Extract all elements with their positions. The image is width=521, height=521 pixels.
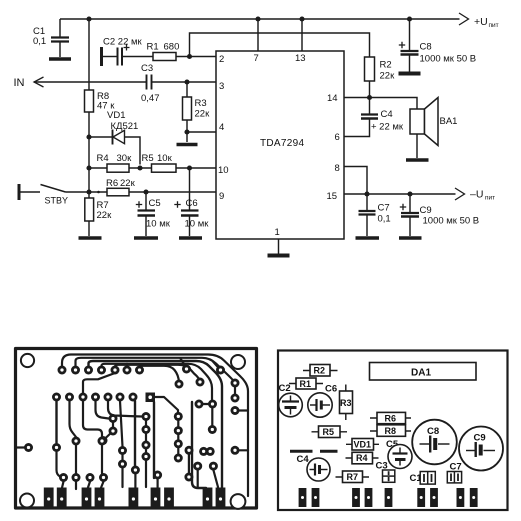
- resistor R7: [88, 192, 90, 198]
- svg-text:0,1: 0,1: [378, 214, 391, 225]
- trace B3 elbow: [83, 401, 102, 437]
- speaker BA1: [410, 109, 425, 134]
- node C9 junction: [407, 191, 412, 196]
- svg-text:10к: 10к: [157, 153, 173, 164]
- trace lower 2: [75, 445, 77, 474]
- svg-text:6: 6: [335, 132, 340, 143]
- resistor R1: [153, 53, 176, 61]
- trace bus 6: [140, 366, 180, 384]
- node pin8/pin15 junction: [364, 191, 369, 196]
- svg-text:22к: 22к: [195, 109, 211, 120]
- resistor R5: [152, 164, 177, 172]
- wire pin 14 to speaker: [344, 98, 417, 110]
- svg-text:R8: R8: [385, 426, 397, 436]
- svg-text:15: 15: [327, 191, 338, 202]
- svg-text:C5: C5: [149, 198, 161, 209]
- node pin14/R2/C4 junction: [367, 95, 372, 100]
- svg-text:R2: R2: [380, 60, 392, 71]
- wire pin 9 row: [66, 191, 108, 193]
- resistor R3: [186, 82, 188, 97]
- trace stub right 1: [235, 409, 248, 411]
- wire left rail: [88, 19, 90, 90]
- svg-text:R3: R3: [195, 98, 207, 109]
- svg-text:VD1: VD1: [354, 440, 372, 450]
- svg-text:C6: C6: [325, 384, 337, 395]
- ground pin 1: [268, 254, 290, 258]
- wire pin 13: [301, 19, 303, 51]
- trace lower 3: [101, 445, 103, 474]
- svg-text:BA1: BA1: [440, 116, 458, 127]
- svg-text:R6: R6: [385, 414, 397, 424]
- switch STBY: [21, 191, 41, 193]
- svg-text:2: 2: [219, 54, 224, 65]
- trace mid chain 1: [145, 417, 147, 457]
- terminal C2 input bar: [100, 47, 103, 66]
- trace mid chain 2: [177, 416, 179, 458]
- resistor R2: [365, 57, 375, 81]
- trace mid 3: [103, 419, 113, 441]
- svg-text:пит: пит: [489, 22, 499, 29]
- mounting hole top-left: [21, 354, 34, 367]
- wire feedback to R2: [190, 33, 370, 57]
- node +U junction C1: [86, 16, 91, 21]
- capacitor C7: [366, 194, 368, 211]
- placement board outline: [278, 351, 508, 511]
- svg-text:R6: R6: [106, 178, 118, 189]
- svg-text:VD1: VD1: [107, 110, 125, 121]
- svg-text:C6: C6: [186, 198, 198, 209]
- capacitor C4 placement circle: [307, 458, 330, 481]
- resistor R4 placement: [346, 457, 379, 459]
- bottom terminal pads placement: [299, 488, 307, 507]
- ground C7: [356, 236, 380, 240]
- svg-text:+ 22 мк: + 22 мк: [371, 122, 404, 133]
- square pad pin1 marker: [146, 393, 156, 403]
- resistor R6 placement: [370, 417, 411, 419]
- svg-text:10 мк: 10 мк: [185, 219, 210, 230]
- svg-text:C9: C9: [420, 205, 432, 216]
- node R5/C6 junction: [187, 165, 192, 170]
- svg-text:10: 10: [218, 165, 229, 176]
- PCB copper-side layout: [16, 349, 257, 509]
- capacitor C4 bars: [290, 450, 313, 453]
- trace left stub: [16, 446, 29, 448]
- ground C6: [179, 236, 202, 240]
- -U arrow: [455, 188, 465, 200]
- node pin3/R3 junction: [184, 79, 189, 84]
- svg-text:+U: +U: [474, 16, 488, 28]
- trace bus 4: [102, 364, 213, 400]
- IC DA1 outline: [370, 363, 477, 381]
- wire pin 1 to ground: [278, 239, 280, 254]
- svg-text:1: 1: [275, 227, 280, 238]
- svg-text:C3: C3: [141, 63, 153, 74]
- trace stub right 2: [235, 449, 248, 451]
- resistor R3 placement: [345, 385, 347, 421]
- wire pin 4: [187, 131, 216, 133]
- trace long vertical 2: [153, 402, 155, 478]
- node pin7 junction: [255, 16, 260, 21]
- terminal STBY bar: [18, 184, 21, 200]
- svg-text:10 мк: 10 мк: [146, 219, 171, 230]
- svg-text:C4: C4: [297, 454, 310, 465]
- trace long vertical 3: [192, 402, 206, 488]
- diode VD1 KD521: [86, 134, 91, 139]
- svg-text:22к: 22к: [97, 210, 113, 221]
- node C5 junction: [143, 189, 148, 194]
- ground R7: [79, 236, 102, 240]
- svg-text:C4: C4: [381, 109, 393, 120]
- trace B6 vertical: [120, 401, 123, 447]
- capacitor C2: [103, 56, 117, 58]
- +U arrow: [459, 13, 469, 25]
- resistor R6: [107, 188, 129, 196]
- trace A8 diag: [181, 359, 187, 369]
- trace right column link: [234, 383, 236, 398]
- svg-text:0,47: 0,47: [141, 93, 160, 104]
- svg-text:–U: –U: [470, 189, 483, 201]
- IN arrow: [34, 77, 44, 87]
- resistor R7 placement: [336, 476, 370, 478]
- capacitor C4 bootstrap: [369, 98, 371, 115]
- ground C9: [399, 236, 422, 240]
- trace bus 1 outer: [62, 355, 248, 497]
- wire pin 15 to -U: [344, 193, 456, 195]
- node R1 output junction: [187, 54, 192, 59]
- svg-text:КД521: КД521: [111, 121, 139, 132]
- mounting hole bottom-left: [20, 494, 34, 508]
- svg-text:C2 22 мк: C2 22 мк: [103, 37, 143, 48]
- op-amp U1 TDA7294: [216, 51, 344, 239]
- mounting hole bottom-right: [231, 494, 246, 509]
- board outline: [16, 349, 257, 509]
- resistor R1 placement: [289, 383, 323, 385]
- svg-text:30к: 30к: [117, 153, 133, 164]
- svg-text:22к: 22к: [120, 178, 136, 189]
- trace B4 elbow: [96, 401, 109, 419]
- node R3 bottom junction: [184, 129, 189, 134]
- svg-text:9: 9: [219, 191, 224, 202]
- svg-text:3: 3: [219, 81, 224, 92]
- svg-text:R1: R1: [147, 42, 159, 53]
- trace pads 199-212: [199, 403, 213, 405]
- svg-text:R7: R7: [347, 472, 359, 482]
- svg-text:C8: C8: [427, 426, 439, 437]
- bottom terminal pads copper: [44, 488, 54, 508]
- ground BA1: [406, 158, 429, 162]
- ground R3/pin4: [177, 143, 198, 147]
- resistor R5 placement: [312, 431, 348, 433]
- node pin13 junction: [299, 16, 304, 21]
- svg-text:C7: C7: [378, 203, 390, 214]
- trace bus 5: [115, 365, 200, 382]
- resistor R2 placement: [303, 370, 338, 372]
- svg-text:R5: R5: [323, 427, 335, 437]
- svg-text:1000 мк 50 В: 1000 мк 50 В: [423, 216, 480, 227]
- capacitor C6: [189, 168, 191, 210]
- svg-text:C2: C2: [279, 383, 291, 394]
- svg-text:14: 14: [327, 93, 338, 104]
- svg-text:R4: R4: [356, 453, 368, 463]
- capacitor C8: [409, 19, 411, 51]
- resistor R8 placement: [370, 430, 411, 432]
- ground C5: [134, 236, 158, 240]
- svg-text:22к: 22к: [380, 71, 396, 82]
- svg-text:7: 7: [254, 53, 259, 64]
- wire top +U rail: [60, 18, 460, 20]
- svg-text:R1: R1: [300, 379, 312, 389]
- wire pin 7: [257, 19, 259, 51]
- svg-text:R5: R5: [142, 153, 154, 164]
- node STBY junction: [86, 189, 91, 194]
- svg-text:0,1: 0,1: [33, 36, 46, 47]
- svg-text:8: 8: [335, 163, 340, 174]
- capacitor C8 placement: [412, 420, 457, 465]
- trace long vertical 1: [134, 401, 136, 466]
- node R4/R5 junction: [137, 165, 142, 170]
- ground C8: [399, 72, 421, 76]
- svg-text:680: 680: [164, 42, 180, 53]
- capacitor C9 placement: [459, 427, 503, 471]
- svg-text:C8: C8: [420, 42, 432, 53]
- trace B1 vertical: [55, 401, 57, 443]
- capacitor C5: [145, 192, 147, 210]
- svg-text:13: 13: [295, 53, 306, 64]
- ground C1: [49, 57, 71, 61]
- mounting hole top-right: [231, 355, 245, 369]
- trace A6 stub: [126, 364, 128, 370]
- resistor R4: [86, 165, 91, 170]
- trace bus 3: [89, 361, 223, 488]
- diode VD1 placement: [346, 443, 379, 445]
- trace lower 1: [57, 452, 64, 478]
- svg-text:C9: C9: [474, 433, 486, 444]
- capacitor C1: [59, 19, 61, 37]
- trace rowB riser: [83, 373, 115, 393]
- trace A9 diag: [213, 361, 221, 370]
- wire IN line to pin 3: [34, 81, 147, 83]
- svg-text:R3: R3: [340, 398, 352, 408]
- pads copper layout: [58, 366, 67, 375]
- svg-text:4: 4: [219, 122, 224, 133]
- wire pin 8: [344, 167, 367, 195]
- svg-text:R4: R4: [97, 153, 109, 164]
- capacitor C9: [409, 194, 411, 213]
- trace B2 elbow: [70, 401, 77, 437]
- svg-text:STBY: STBY: [45, 196, 69, 206]
- trace square pad link: [155, 397, 178, 416]
- trace B5 elbow: [108, 401, 142, 417]
- resistor R8: [85, 90, 94, 112]
- svg-text:DA1: DA1: [411, 368, 431, 379]
- wire pin 10: [176, 167, 216, 169]
- capacitor C3: [146, 75, 148, 90]
- trace lower pads down: [62, 482, 64, 490]
- node C8 junction: [407, 16, 412, 21]
- svg-text:IN: IN: [14, 77, 25, 89]
- svg-text:TDA7294: TDA7294: [260, 138, 304, 149]
- svg-text:пит: пит: [485, 195, 495, 202]
- trace bus 2: [76, 358, 236, 383]
- svg-text:R2: R2: [314, 366, 326, 376]
- svg-text:1000 мк 50 В: 1000 мк 50 В: [420, 54, 477, 65]
